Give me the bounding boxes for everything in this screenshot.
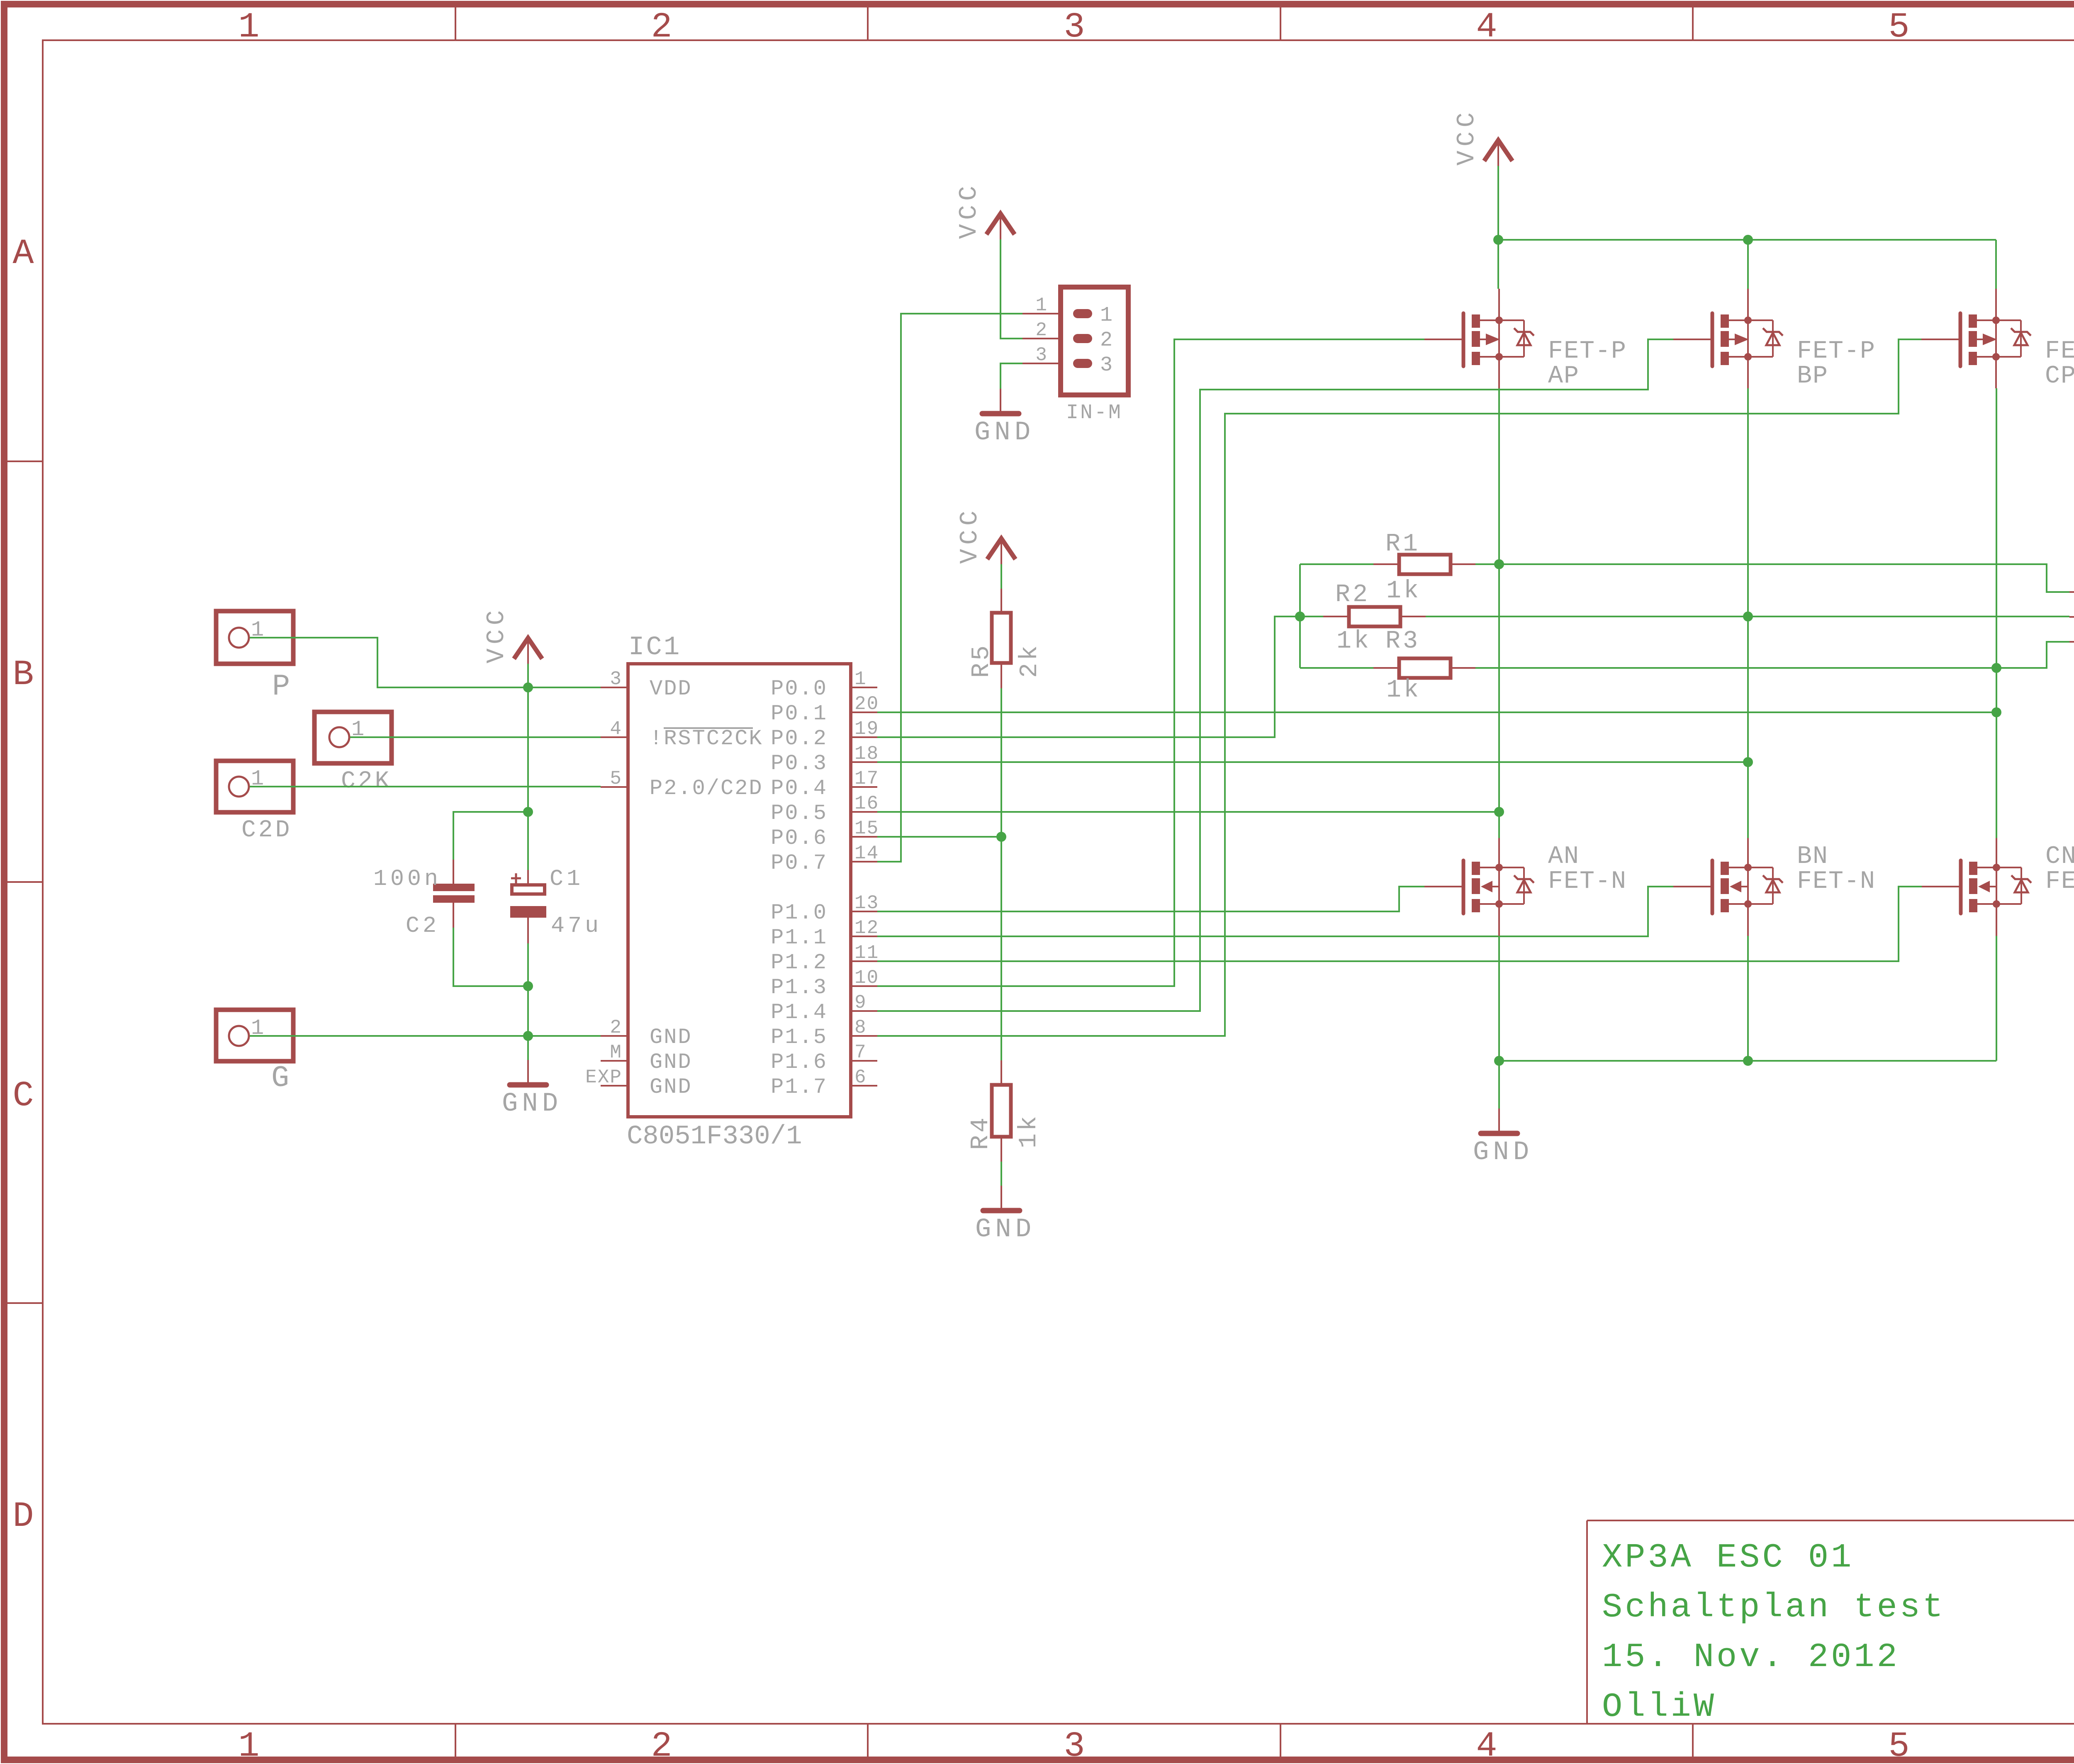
IC1 right pin 18 (P0.3) bbox=[771, 743, 879, 776]
svg-text:C: C bbox=[12, 1076, 34, 1116]
capacitor C1 pin top bbox=[527, 870, 529, 885]
AN source pin bbox=[1498, 904, 1500, 936]
svg-text:GND: GND bbox=[650, 1025, 692, 1050]
svg-text:P0.2: P0.2 bbox=[771, 726, 828, 751]
svg-text:R2: R2 bbox=[1335, 581, 1370, 609]
IN-M pin stub 1 bbox=[1022, 313, 1061, 314]
svg-text:!RSTC2CK: !RSTC2CK bbox=[650, 726, 763, 751]
svg-text:1: 1 bbox=[251, 767, 264, 791]
svg-text:8: 8 bbox=[854, 1017, 867, 1038]
transistor AN FET-N bbox=[1424, 838, 1627, 914]
IC1 right pin 15 (P0.6) bbox=[771, 818, 879, 850]
svg-text:FET-P: FET-P bbox=[1548, 337, 1627, 365]
svg-text:1k: 1k bbox=[1336, 627, 1371, 655]
svg-text:9: 9 bbox=[854, 992, 867, 1014]
wire GND stem left bbox=[527, 1036, 529, 1060]
IN-M pin stub 2 bbox=[1022, 338, 1061, 339]
svg-text:P0.5: P0.5 bbox=[771, 801, 828, 826]
svg-text:VCC: VCC bbox=[1453, 108, 1481, 166]
svg-text:1: 1 bbox=[854, 668, 867, 690]
wire phase C vertical bbox=[1996, 388, 1997, 838]
wire P1.3 to AP gate bbox=[877, 339, 1425, 986]
wire P0.2 to R divider node bbox=[877, 616, 1300, 737]
IC1 left pin 5 (P2.0/C2D) bbox=[601, 768, 763, 801]
BP drain pin bbox=[1747, 357, 1749, 388]
svg-text:1: 1 bbox=[1100, 304, 1112, 327]
svg-text:IC1: IC1 bbox=[628, 633, 681, 663]
svg-text:2: 2 bbox=[651, 1726, 672, 1764]
svg-text:2: 2 bbox=[1035, 319, 1047, 341]
svg-text:1: 1 bbox=[238, 1726, 259, 1764]
svg-text:GND: GND bbox=[650, 1050, 692, 1074]
svg-text:14: 14 bbox=[854, 843, 879, 864]
wire VCC to IN-M pin 2 bbox=[1000, 239, 1022, 339]
svg-text:18: 18 bbox=[854, 743, 879, 765]
svg-text:47u: 47u bbox=[551, 913, 602, 939]
transistor BN FET-N bbox=[1673, 838, 1876, 914]
IC1 left pin 3 (VDD) bbox=[601, 668, 692, 701]
transistor AP FET-P bbox=[1424, 289, 1627, 390]
IC1 left pin 2 (GND) bbox=[601, 1017, 692, 1050]
wire AN source to GND rail bbox=[1498, 936, 1500, 1061]
svg-text:P0.4: P0.4 bbox=[771, 776, 828, 801]
frame column numbers bottom bbox=[238, 1726, 2074, 1764]
svg-text:VCC: VCC bbox=[955, 182, 983, 239]
junction VCC/C1C2 node bbox=[523, 807, 533, 817]
svg-text:GND: GND bbox=[502, 1089, 562, 1119]
IC1 left pin EXP (GND) bbox=[585, 1067, 692, 1099]
resistor R1 pin left bbox=[1373, 563, 1399, 565]
resistor R5 pin top bbox=[1000, 589, 1002, 613]
svg-text:1k: 1k bbox=[1015, 1113, 1043, 1148]
svg-text:GND: GND bbox=[650, 1075, 692, 1099]
svg-text:P0.7: P0.7 bbox=[771, 851, 828, 875]
svg-text:P0.6: P0.6 bbox=[771, 826, 828, 850]
IC1 right pin 16 (P0.5) bbox=[771, 793, 879, 826]
wire phase B vertical bbox=[1747, 388, 1749, 838]
svg-text:Schaltplan test: Schaltplan test bbox=[1602, 1588, 1945, 1627]
wire C2D pad to IC pin 5 bbox=[250, 786, 601, 787]
frame column ticks bbox=[455, 7, 2074, 1757]
svg-text:VCC: VCC bbox=[956, 507, 984, 564]
svg-text:3: 3 bbox=[1064, 1726, 1085, 1764]
svg-text:P1.4: P1.4 bbox=[771, 1000, 828, 1025]
svg-text:1k: 1k bbox=[1386, 676, 1421, 704]
wire C2 branch bbox=[453, 812, 528, 860]
svg-text:P1.6: P1.6 bbox=[771, 1050, 828, 1074]
svg-text:1: 1 bbox=[251, 618, 264, 642]
IC1 right pin 11 (P1.2) bbox=[771, 942, 879, 975]
svg-text:12: 12 bbox=[854, 917, 879, 939]
svg-text:7: 7 bbox=[854, 1042, 867, 1063]
svg-text:P1.0: P1.0 bbox=[771, 901, 828, 925]
svg-text:17: 17 bbox=[854, 768, 879, 789]
svg-text:20: 20 bbox=[854, 693, 879, 715]
svg-text:FET-N: FET-N bbox=[1797, 867, 1876, 896]
power VCC (R5) bbox=[956, 507, 1015, 564]
svg-text:C2: C2 bbox=[406, 913, 440, 939]
wire R1 left bbox=[1300, 563, 1373, 565]
svg-text:B: B bbox=[12, 655, 34, 695]
svg-text:5: 5 bbox=[610, 768, 622, 789]
wire P1.4 to BP gate bbox=[877, 339, 1674, 1011]
svg-text:13: 13 bbox=[854, 892, 879, 914]
junction VCC rail / BP bbox=[1743, 235, 1753, 245]
svg-text:15: 15 bbox=[854, 818, 879, 839]
IC1 right pin 19 (P0.2) bbox=[771, 718, 879, 751]
wire P1.2 to CN gate bbox=[877, 887, 1923, 961]
svg-text:6: 6 bbox=[854, 1067, 867, 1088]
ABC-M pin stub 1 bbox=[2069, 591, 2074, 593]
svg-text:EXP: EXP bbox=[585, 1067, 622, 1088]
wire CN source to GND rail bbox=[1996, 936, 1997, 1061]
svg-text:2: 2 bbox=[1100, 329, 1112, 352]
IC1 right pin 9 (P1.4) bbox=[771, 992, 877, 1025]
svg-text:11: 11 bbox=[854, 942, 879, 964]
ABC-M pin stub 3 bbox=[2069, 641, 2074, 643]
connector IN-M pad 3 bbox=[1073, 359, 1092, 368]
svg-text:P0.3: P0.3 bbox=[771, 751, 828, 776]
svg-text:IN-M: IN-M bbox=[1066, 401, 1122, 425]
IC1 right pin 8 (P1.5) bbox=[771, 1017, 877, 1050]
capacitor C1 plus sign bbox=[511, 877, 521, 880]
svg-text:3: 3 bbox=[1035, 344, 1047, 366]
svg-text:C2D: C2D bbox=[241, 817, 292, 844]
junction G row / GND bbox=[523, 1031, 533, 1041]
wire GND rail stem bbox=[1498, 1061, 1500, 1109]
capacitor C1 plate bottom bbox=[510, 906, 546, 918]
svg-text:BN: BN bbox=[1797, 843, 1828, 871]
wire P0.3 to phase B bbox=[877, 761, 1748, 763]
title block box bbox=[1587, 1520, 2074, 1724]
IC1 right pin 7 (P1.6) bbox=[771, 1042, 877, 1074]
BN source pin bbox=[1747, 904, 1749, 936]
svg-text:GND: GND bbox=[974, 418, 1035, 448]
transistor CP FET-P bbox=[1921, 289, 2074, 390]
wire P0.5 to phase A bbox=[877, 811, 1499, 813]
resistor R2 body bbox=[1349, 607, 1400, 626]
IC1 right pin 20 (P0.1) bbox=[771, 693, 879, 726]
IC1 right pin 12 (P1.1) bbox=[771, 917, 879, 950]
wire P pad to VCC node to IC pin 3 bbox=[250, 638, 601, 687]
svg-text:R4: R4 bbox=[967, 1115, 995, 1150]
connector P bbox=[216, 611, 293, 704]
resistor R4 body bbox=[992, 1085, 1011, 1137]
wire R-left bus vertical bbox=[1299, 564, 1301, 668]
wire C1 top bbox=[527, 812, 529, 870]
svg-text:2: 2 bbox=[610, 1017, 622, 1038]
svg-text:4: 4 bbox=[610, 718, 622, 740]
wire P1.1 to BN gate bbox=[877, 887, 1674, 936]
ground GND (R4) bbox=[975, 1186, 1035, 1245]
wire R4 to GND bbox=[1000, 1162, 1002, 1186]
connector G bbox=[216, 1010, 293, 1095]
wire C2 bottom to C1 column bbox=[453, 928, 528, 986]
svg-text:100n: 100n bbox=[373, 866, 441, 892]
IC1 left pin M (GND) bbox=[601, 1042, 692, 1074]
svg-text:GND: GND bbox=[1473, 1138, 1533, 1167]
junction VCC/P wire bbox=[523, 682, 533, 692]
resistor R4 pin top bbox=[1000, 1060, 1002, 1085]
junction VCC rail / AP bbox=[1493, 235, 1503, 245]
power VCC (top rail) bbox=[1453, 108, 1512, 166]
IC1 right pin 13 (P1.0) bbox=[771, 892, 879, 925]
svg-text:CP: CP bbox=[2045, 362, 2074, 390]
svg-text:16: 16 bbox=[854, 793, 879, 814]
wire VCC column left bbox=[527, 664, 529, 812]
svg-text:M: M bbox=[610, 1042, 622, 1063]
svg-text:4: 4 bbox=[1476, 1726, 1497, 1764]
svg-text:P1.3: P1.3 bbox=[771, 975, 828, 1000]
svg-text:P0.1: P0.1 bbox=[771, 702, 828, 726]
wire IN-M pin3 to GND bbox=[1000, 363, 1022, 389]
wire VCC top rail bbox=[1497, 166, 1499, 240]
svg-text:AN: AN bbox=[1548, 843, 1580, 871]
resistor R3 pin left bbox=[1373, 667, 1399, 669]
junction P0.3 / phase B bbox=[1743, 757, 1753, 767]
wire G pad to GND node to IC pin 2 bbox=[250, 1035, 601, 1037]
svg-text:P1.2: P1.2 bbox=[771, 950, 828, 975]
svg-text:4: 4 bbox=[1476, 7, 1497, 47]
wire VCC to R5 bbox=[1000, 564, 1002, 589]
resistor R5 body bbox=[992, 613, 1011, 663]
connector IN-M body bbox=[1061, 287, 1128, 395]
svg-text:GND: GND bbox=[975, 1215, 1035, 1245]
svg-text:19: 19 bbox=[854, 718, 879, 740]
IC1 right pin 17 (P0.4) bbox=[771, 768, 879, 801]
transistor CN FET-N bbox=[1922, 838, 2074, 914]
svg-text:BP: BP bbox=[1797, 362, 1828, 390]
svg-text:R5: R5 bbox=[968, 643, 996, 678]
wire VCC drop to BP bbox=[1747, 240, 1749, 289]
svg-text:P1.7: P1.7 bbox=[771, 1075, 828, 1099]
connector IN-M pad 2 bbox=[1073, 334, 1092, 343]
capacitor C1 pin bottom bbox=[527, 918, 529, 943]
svg-text:2: 2 bbox=[651, 7, 672, 47]
wire P0.6 to R5/R4 column bbox=[877, 836, 1001, 838]
svg-text:P1.5: P1.5 bbox=[771, 1025, 828, 1050]
resistor R1 body bbox=[1399, 555, 1451, 574]
connector IN-M pad 1 bbox=[1073, 309, 1092, 318]
junction C2/C1 rejoin bbox=[523, 981, 533, 991]
svg-text:A: A bbox=[12, 234, 34, 274]
svg-text:P: P bbox=[272, 670, 292, 704]
wire BN source to GND rail bbox=[1747, 936, 1749, 1061]
transistor BP FET-P bbox=[1673, 289, 1876, 390]
svg-text:G: G bbox=[271, 1061, 292, 1095]
wire P1.0 to AN gate bbox=[877, 887, 1425, 911]
wire R5 to R4 (P0.6 net) bbox=[1000, 688, 1002, 1060]
IC1 right pin 6 (P1.7) bbox=[771, 1067, 877, 1099]
junction P0.1 / phase C bbox=[1991, 707, 2001, 717]
svg-text:1k: 1k bbox=[1386, 577, 1421, 605]
junction P0.5 / phase A bbox=[1494, 807, 1504, 817]
svg-text:C8051F330/1: C8051F330/1 bbox=[627, 1122, 802, 1152]
wire VCC drop to CP bbox=[1995, 240, 1997, 289]
svg-text:1: 1 bbox=[351, 717, 364, 742]
wire C2K pad to IC pin 4 bbox=[350, 736, 601, 738]
svg-text:AP: AP bbox=[1548, 362, 1580, 390]
svg-text:OlliW: OlliW bbox=[1602, 1688, 1716, 1726]
svg-text:CN: CN bbox=[2045, 843, 2074, 871]
wire P0.1 to phase C bbox=[877, 711, 1996, 713]
junction R3 / phase C bbox=[1991, 663, 2001, 673]
wire P1.5 to CP gate bbox=[877, 339, 1923, 1036]
svg-text:FET-P: FET-P bbox=[2045, 337, 2074, 365]
svg-text:3: 3 bbox=[610, 668, 622, 690]
IC1 right pin 14 (P0.7) bbox=[771, 843, 879, 875]
IC1 right pin 1 (P0.0) bbox=[771, 668, 877, 701]
capacitor C1 plate top bbox=[512, 885, 545, 894]
svg-text:3: 3 bbox=[1100, 353, 1112, 377]
junction R2 left bbox=[1295, 612, 1305, 621]
wire R1 right to phase A and ABC-M pin1 bbox=[1475, 564, 2069, 592]
resistor R2 pin left bbox=[1323, 616, 1349, 617]
ABC-M pin stub 2 bbox=[2069, 616, 2074, 618]
connector C2K bbox=[314, 712, 392, 795]
resistor R4 pin bottom bbox=[1000, 1137, 1002, 1162]
capacitor C2 plates bbox=[433, 884, 475, 891]
junction R2 / phase B bbox=[1743, 612, 1753, 621]
wire GND rail bottom bbox=[1499, 1060, 1996, 1062]
svg-text:1: 1 bbox=[238, 7, 259, 47]
capacitor C2 pin top bbox=[453, 860, 454, 885]
svg-text:5: 5 bbox=[1888, 7, 1909, 47]
wire R3 right to phase C and ABC-M pin3 bbox=[1475, 642, 2069, 668]
power VCC (left) bbox=[483, 606, 542, 664]
junction GND rail / BN bbox=[1743, 1056, 1753, 1066]
svg-text:VDD: VDD bbox=[650, 677, 692, 701]
junction GND rail / AN bbox=[1494, 1056, 1504, 1066]
AP drain pin bbox=[1498, 357, 1500, 388]
ground GND (left) bbox=[502, 1060, 562, 1119]
svg-text:5: 5 bbox=[1888, 1726, 1909, 1764]
frame row ticks bbox=[7, 461, 2074, 1303]
svg-text:FET-P: FET-P bbox=[1797, 337, 1876, 365]
svg-text:C2K: C2K bbox=[341, 768, 392, 795]
wire C1 bottom to G row bbox=[527, 943, 529, 1036]
connector C2D bbox=[216, 761, 293, 844]
resistor R2 pin right bbox=[1400, 616, 1426, 617]
svg-text:3: 3 bbox=[1064, 7, 1085, 47]
svg-text:10: 10 bbox=[854, 967, 879, 989]
power VCC (IN-M) bbox=[955, 182, 1015, 239]
resistor R1 pin right bbox=[1451, 563, 1475, 565]
IC1 left pin 4 (!RSTC2CK) bbox=[601, 718, 763, 751]
svg-text:1: 1 bbox=[251, 1016, 264, 1040]
resistor R3 pin right bbox=[1451, 667, 1475, 669]
wire R2 right to phase B and ABC-M pin2 bbox=[1426, 616, 2069, 617]
junction R1 / phase A bbox=[1494, 559, 1504, 569]
svg-text:2k: 2k bbox=[1016, 643, 1044, 678]
svg-text:R3: R3 bbox=[1385, 627, 1420, 655]
junction P0.6 / R5R4 bbox=[996, 832, 1006, 842]
resistor R5 pin bottom bbox=[1000, 663, 1002, 688]
svg-text:1: 1 bbox=[1035, 295, 1047, 316]
svg-text:C1: C1 bbox=[550, 866, 584, 892]
svg-text:P0.0: P0.0 bbox=[771, 677, 828, 701]
frame row letters left bbox=[12, 234, 34, 1537]
wire phase A vertical bbox=[1498, 388, 1500, 838]
svg-text:FET-N: FET-N bbox=[2045, 867, 2074, 896]
ground GND (IN-M) bbox=[974, 389, 1035, 448]
IC1 right pin 10 (P1.3) bbox=[771, 967, 879, 1000]
svg-text:FET-N: FET-N bbox=[1548, 867, 1627, 896]
resistor R3 body bbox=[1399, 658, 1451, 678]
IC U1 C8051F330 body bbox=[628, 664, 851, 1117]
svg-text:VCC: VCC bbox=[483, 606, 511, 663]
frame column numbers top bbox=[238, 7, 2074, 47]
svg-text:15. Nov. 2012: 15. Nov. 2012 bbox=[1602, 1638, 1900, 1676]
svg-text:P2.0/C2D: P2.0/C2D bbox=[650, 776, 763, 801]
ground GND (FET rail) bbox=[1473, 1109, 1533, 1167]
wire R3 left bbox=[1300, 667, 1373, 669]
wire VCC drop to AP bbox=[1497, 240, 1499, 289]
svg-text:XP3A ESC 01: XP3A ESC 01 bbox=[1602, 1538, 1854, 1577]
capacitor C2 pin bottom bbox=[453, 903, 454, 928]
svg-text:D: D bbox=[12, 1496, 34, 1537]
wire R2 left stub bbox=[1300, 616, 1323, 617]
svg-text:R1: R1 bbox=[1385, 530, 1420, 558]
CP drain pin bbox=[1995, 357, 1997, 388]
wire IN-M pin1 to IC pin 14 bbox=[877, 314, 1022, 862]
IN-M pin stub 3 bbox=[1022, 363, 1061, 364]
CN source pin bbox=[1996, 904, 1997, 936]
svg-text:P1.1: P1.1 bbox=[771, 926, 828, 950]
